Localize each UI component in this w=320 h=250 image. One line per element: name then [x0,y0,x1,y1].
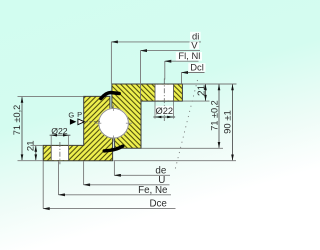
bottom dimension U [84,161,170,186]
inner ring (right) cross-section [112,84,182,148]
svg-text:Dce: Dce [149,199,167,210]
G label and filled triangle [68,110,76,124]
right dimension 21 [196,84,207,101]
dimension Ø22 left [50,126,71,146]
outer ring hole centerline [59,142,61,164]
svg-text:V: V [191,39,198,50]
svg-text:Fl, Nl: Fl, Nl [178,50,200,61]
svg-text:21: 21 [196,84,207,96]
contact mark lower [104,146,123,151]
inner ring bolt hole (white strip) [155,84,174,101]
dimension Fl, Nl [165,50,202,79]
inner hole centerline [163,79,165,122]
svg-text:71 ±0,2: 71 ±0,2 [209,100,219,131]
P label and open triangle [77,110,84,125]
svg-text:71 ±0,2: 71 ±0,2 [12,105,22,136]
outer ring (left) cross-section [43,96,112,160]
dimension di [111,30,201,84]
bottom dimension Dce [43,161,175,210]
outer ring bolt hole (white strip) [51,146,68,161]
left extension lines [18,96,84,160]
dimension Dcl [182,61,206,83]
svg-text:Dcl: Dcl [190,61,204,72]
dotted diagonal leader [175,80,198,172]
svg-text:Ø22: Ø22 [51,126,68,136]
svg-text:G: G [68,110,74,119]
left dimension 21 [26,141,38,161]
dashed leader to ball [85,121,100,123]
bottom dimension de [114,161,170,177]
contact mark upper [101,93,119,99]
bottom dimension Fe, Ne [59,161,172,196]
right dimension 71 ±0,2 [209,84,220,148]
svg-text:P: P [77,110,82,119]
right extension lines [114,84,237,161]
left dimension 71 ±0,2 [12,97,23,161]
dimension Ø22 right [153,102,175,119]
svg-text:Ø22: Ø22 [156,106,174,116]
dimension V [141,39,201,101]
svg-text:21: 21 [26,141,37,152]
ball centre ticks [95,105,132,142]
svg-text:Fe, Ne: Fe, Ne [138,185,168,196]
right dimension 90 ±1 [222,84,234,161]
svg-text:90 ±1: 90 ±1 [222,110,233,134]
ball [98,108,129,139]
